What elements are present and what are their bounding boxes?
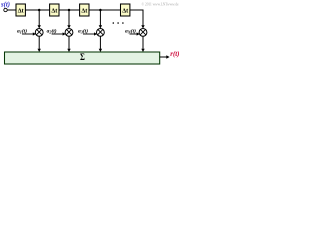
multiplier M3: [97, 29, 105, 37]
wire M4 to sum: [142, 36, 144, 50]
arrowhead into M2: [67, 25, 70, 28]
node junction 1: [38, 9, 41, 12]
delay T4: [121, 4, 130, 16]
svg-text:© 2011 www.LNTwww.de: © 2011 www.LNTwww.de: [142, 2, 179, 7]
wire tap 1 down: [38, 10, 40, 27]
delay T3: [80, 4, 89, 16]
wire T1 to T2: [25, 9, 49, 11]
svg-text:Δt: Δt: [51, 8, 58, 15]
wire T4 to tap 4 corner: [130, 10, 143, 26]
svg-text:a2(t): a2(t): [47, 27, 57, 34]
wire M1 to sum: [38, 36, 40, 50]
svg-text:aN(t): aN(t): [125, 27, 136, 34]
delay T2: [50, 4, 59, 16]
wire coeff arrow 1: [22, 33, 34, 35]
wire M3 to sum: [99, 36, 101, 50]
ellipsis dots: [113, 22, 115, 24]
wire T2 to T3: [59, 9, 80, 11]
wire coeff arrow 2: [52, 33, 64, 35]
arrowhead into M4: [141, 25, 144, 28]
delay T1: [16, 4, 25, 16]
svg-text:Δt: Δt: [81, 8, 88, 15]
wire tap 3 down: [99, 10, 101, 27]
arrowhead into M1: [38, 25, 41, 28]
multiplier M1: [35, 29, 43, 37]
wire T3 to T4: [89, 9, 121, 11]
node junction 2: [68, 9, 71, 12]
svg-text:a1(t): a1(t): [17, 27, 27, 34]
svg-text:Σ: Σ: [80, 51, 85, 62]
multiplier M4: [139, 29, 147, 37]
svg-text:a3(t): a3(t): [78, 27, 88, 34]
svg-text:r(t): r(t): [170, 51, 179, 58]
wire sum output: [160, 56, 167, 58]
wire coeff arrow 3: [83, 33, 95, 35]
arrowhead into M3: [99, 25, 102, 28]
svg-text:Δt: Δt: [122, 8, 129, 15]
node junction 3: [99, 9, 102, 12]
wire tap 2 down: [68, 10, 70, 27]
summer box: [5, 51, 160, 64]
wire coeff arrow 4: [130, 33, 138, 35]
wire input to T1: [7, 9, 16, 11]
svg-text:Δt: Δt: [18, 8, 25, 15]
input node circle: [4, 8, 7, 11]
multiplier M2: [65, 29, 73, 37]
wire M2 to sum: [68, 36, 70, 50]
svg-text:s(t): s(t): [0, 2, 10, 9]
